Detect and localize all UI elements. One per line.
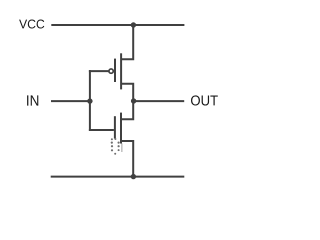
PMOS gate bubble [109, 69, 113, 73]
junction node OUT [131, 98, 136, 103]
wire ground rail [51, 176, 185, 178]
PMOS source stub [121, 25, 133, 59]
NMOS source stub [121, 141, 133, 177]
NMOS drain stub [121, 101, 133, 119]
junction on ground rail [131, 174, 136, 179]
net label IN [27, 95, 38, 105]
PMOS gate bar [114, 59, 116, 82]
NMOS bulk dotted artifact [111, 138, 122, 155]
PMOS drain stub [121, 84, 133, 101]
junction on VCC rail [131, 22, 136, 27]
PMOS channel bar [120, 53, 122, 89]
PMOS gate wire [89, 70, 109, 72]
transistor PMOS [89, 25, 133, 101]
net label VCC [19, 20, 44, 29]
wire IN [51, 100, 90, 102]
net label OUT [191, 95, 218, 105]
junction node IN [87, 98, 92, 103]
wire gate bus [89, 70, 91, 131]
NMOS gate wire [89, 129, 114, 131]
wire VCC rail [51, 24, 184, 26]
transistor NMOS [89, 101, 133, 177]
NMOS channel bar [120, 113, 122, 144]
wire OUT [133, 100, 184, 102]
NMOS gate bar [114, 116, 116, 138]
